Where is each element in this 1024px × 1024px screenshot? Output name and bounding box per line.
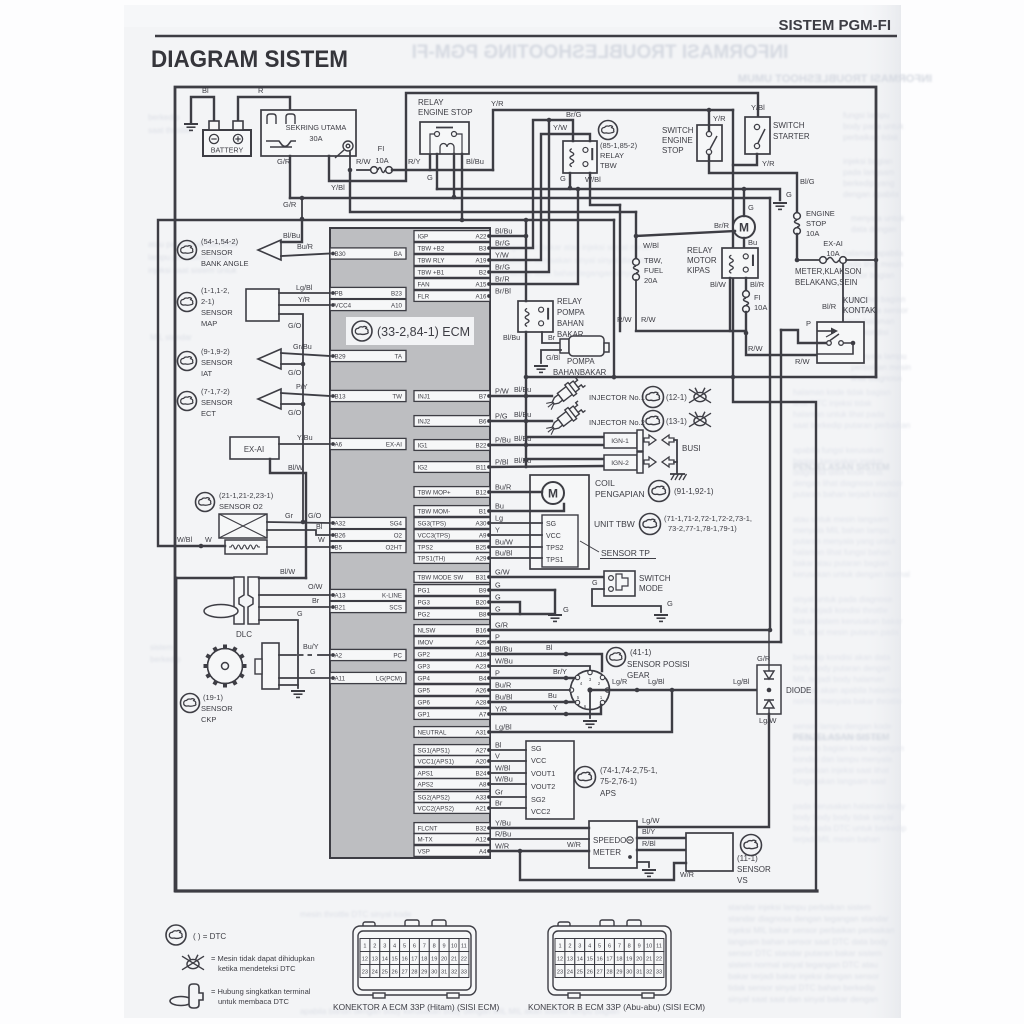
svg-text:Bu: Bu: [495, 502, 504, 511]
wire: GP5 Bu/R: [490, 689, 570, 691]
svg-text:(33-2,84-1) ECM: (33-2,84-1) ECM: [377, 325, 470, 339]
svg-text:G: G: [592, 578, 598, 587]
wire: DLC Bl/W: [259, 577, 306, 579]
wire: coil 1 supply: [526, 436, 604, 438]
ECM pin FLR A16: [414, 291, 490, 302]
svg-text:3: 3: [578, 944, 581, 950]
svg-text:14: 14: [577, 957, 583, 963]
svg-text:POMPA: POMPA: [557, 308, 585, 317]
wire: P long riser x=781: [780, 330, 782, 642]
svg-text:B16: B16: [475, 628, 487, 635]
ECM pin TBW MOP+ B12: [414, 487, 490, 498]
DTC mark: [181, 694, 200, 713]
wire: PG ground riser: [554, 590, 556, 612]
svg-text:saat throttle: saat throttle: [148, 126, 191, 135]
svg-text:SENSOR TP: SENSOR TP: [601, 548, 650, 558]
svg-text:sensor lampu dengan kode: sensor lampu dengan kode: [793, 722, 892, 731]
ground: [291, 691, 305, 697]
svg-text:R/Bl: R/Bl: [642, 839, 656, 848]
wire colour labels at ECM connector: [495, 227, 513, 851]
wire: P from kunci kontak: [781, 330, 826, 343]
svg-text:SG2(APS2): SG2(APS2): [418, 795, 450, 802]
svg-text:18: 18: [616, 957, 622, 963]
svg-text:A12: A12: [475, 837, 487, 844]
ECM pin TBW RLY A19: [414, 255, 490, 266]
sensor CKP pickup: [262, 643, 279, 689]
svg-text:Y: Y: [553, 703, 558, 712]
svg-text:A6: A6: [335, 442, 343, 449]
svg-text:COIL: COIL: [595, 478, 615, 488]
svg-text:20: 20: [636, 957, 642, 963]
ECM pin B26 O2: [330, 529, 406, 540]
DTC mark: [640, 514, 661, 535]
svg-text:VCC: VCC: [531, 756, 546, 765]
wire: Y/R long riser x=733: [732, 110, 734, 377]
svg-text:VCC1(APS1): VCC1(APS1): [418, 759, 454, 766]
svg-text:IAT: IAT: [201, 369, 213, 378]
wire: sensor ground loop G/R (y=220): [158, 220, 614, 546]
svg-text:untuk membaca DTC: untuk membaca DTC: [218, 997, 289, 1006]
svg-text:2: 2: [568, 944, 571, 950]
svg-text:PENJELASAN SISTEM: PENJELASAN SISTEM: [793, 732, 890, 742]
wire: GP3 W/Bu: [490, 666, 590, 670]
svg-text:30A: 30A: [309, 134, 322, 143]
svg-text:B21: B21: [335, 605, 347, 612]
wire: IG1 P/Bu wire: [490, 444, 604, 446]
svg-text:22: 22: [656, 957, 662, 963]
svg-text:KIPAS: KIPAS: [687, 266, 710, 275]
svg-text:26: 26: [587, 970, 593, 976]
wire: relay kipas Bl/R pin: [745, 278, 747, 291]
svg-text:30: 30: [431, 970, 437, 976]
svg-text:Bu/Bl: Bu/Bl: [495, 549, 513, 558]
svg-text:FLR: FLR: [418, 294, 430, 301]
svg-text:28: 28: [411, 970, 417, 976]
svg-text:BUSI: BUSI: [682, 444, 701, 453]
svg-text:P/Y: P/Y: [296, 382, 308, 391]
wire: APS connection: [490, 772, 526, 774]
svg-text:GEAR: GEAR: [627, 671, 650, 680]
svg-text:5: 5: [403, 944, 406, 950]
wire: FLCNT Y/Bu: [490, 827, 589, 829]
svg-text:16: 16: [596, 957, 602, 963]
svg-text:K-LINE: K-LINE: [382, 593, 402, 600]
svg-text:G/R: G/R: [283, 200, 297, 209]
svg-text:FLCNT: FLCNT: [418, 826, 438, 833]
svg-text:Lg/Bl: Lg/Bl: [495, 723, 512, 732]
ECM pin TPS2 B25: [414, 542, 490, 553]
svg-text:GP5: GP5: [418, 688, 431, 695]
wire: PG2 G: [490, 613, 555, 615]
svg-text:6: 6: [608, 944, 611, 950]
svg-text:Y/W: Y/W: [495, 251, 509, 260]
svg-text:RELAY: RELAY: [687, 246, 713, 255]
svg-text:2-1): 2-1): [201, 297, 215, 306]
DTC mark: [599, 121, 618, 140]
svg-text:15: 15: [391, 957, 397, 963]
engine-disabled mark: [182, 955, 204, 970]
svg-text:APS1: APS1: [418, 771, 434, 778]
svg-text:A19: A19: [475, 258, 487, 265]
svg-text:Bl/Bu: Bl/Bu: [503, 333, 520, 342]
svg-text:ECT: ECT: [201, 409, 216, 418]
svg-text:VOUT1: VOUT1: [531, 769, 555, 778]
fuse box SEKRING UTAMA 30A: [261, 110, 356, 156]
injector INJECTOR No.1: [544, 375, 587, 413]
engine-disabled mark: [689, 388, 711, 403]
node: Br/G junction: [547, 118, 552, 123]
diode DIODE: [757, 665, 781, 714]
scanned page: [124, 5, 901, 1018]
ECM pin GP1 A7: [414, 709, 490, 720]
svg-text:W/Bl: W/Bl: [495, 764, 511, 773]
svg-text:11: 11: [461, 944, 467, 950]
svg-text:terjadi MIL mesin bahan: terjadi MIL mesin bahan: [793, 835, 881, 844]
svg-text:19: 19: [431, 957, 437, 963]
svg-text:A28: A28: [475, 700, 487, 707]
node: Bl/Bu junction on bus: [524, 218, 529, 223]
svg-text:MODE: MODE: [639, 584, 663, 593]
svg-text:G: G: [495, 605, 501, 614]
wire: CKP Bu/Y dashed to A2: [279, 654, 296, 656]
svg-text:33: 33: [461, 970, 467, 976]
svg-text:(19-1): (19-1): [203, 693, 224, 702]
motor M (fan): [733, 216, 755, 238]
svg-text:= Hubung singkatkan terminal: = Hubung singkatkan terminal: [211, 987, 311, 996]
svg-text:standar diagnosa dengan tegang: standar diagnosa dengan tegangan standar: [728, 914, 889, 924]
wire: G/R drop x=614 to y=377 bus: [613, 220, 615, 378]
svg-text:12: 12: [557, 957, 563, 963]
svg-text:fungsi akan langsam saat: fungsi akan langsam saat: [793, 777, 887, 786]
svg-text:TA: TA: [395, 354, 403, 361]
ECM pin VCC1(APS1) A20: [414, 756, 490, 767]
svg-text:Y/R: Y/R: [495, 705, 507, 714]
svg-text:IG2: IG2: [418, 465, 429, 472]
svg-text:BA: BA: [394, 251, 403, 258]
wire: ECT G/O: [281, 403, 303, 405]
svg-text:B24: B24: [475, 771, 487, 778]
wire: Br/G to relay TBW: [490, 120, 573, 248]
svg-text:V: V: [495, 752, 500, 761]
svg-text:TBW MOP+: TBW MOP+: [418, 490, 452, 497]
svg-text:Y/R: Y/R: [491, 99, 504, 108]
svg-text:bakar atau putaran bagian: bakar atau putaran bagian: [793, 559, 889, 568]
svg-text:( ) = DTC: ( ) = DTC: [193, 932, 226, 941]
wire: R/W bus via y=212: [350, 170, 636, 212]
wire: busi ground: [674, 440, 677, 462]
ground: [654, 615, 668, 621]
svg-text:METER: METER: [593, 848, 621, 857]
svg-text:25: 25: [577, 970, 583, 976]
ECM pin PG1 B9: [414, 585, 490, 596]
wire: coil 2 supply: [526, 458, 604, 460]
svg-text:Br/Y: Br/Y: [553, 667, 567, 676]
svg-text:B26: B26: [335, 533, 347, 540]
svg-text:Bu/Y: Bu/Y: [303, 642, 319, 651]
ECM pin GP6 A28: [414, 697, 490, 708]
wire: TBW MODE SW G/W: [490, 576, 604, 578]
ECM pin A2 PC: [330, 649, 406, 660]
ground: [184, 124, 198, 130]
sensor SENSOR MAP: [246, 289, 279, 321]
svg-text:menyala MIL bahan lampu: menyala MIL bahan lampu: [793, 526, 890, 535]
svg-text:INJECTOR No.1: INJECTOR No.1: [589, 393, 645, 402]
svg-text:B30: B30: [335, 251, 347, 258]
svg-text:Bl: Bl: [316, 522, 323, 531]
svg-text:19: 19: [626, 957, 632, 963]
svg-text:Y/W: Y/W: [553, 123, 568, 132]
ground: [773, 203, 787, 209]
wire: relay ES pin Bl/Bu: [461, 154, 463, 220]
svg-text:Br/G: Br/G: [495, 239, 510, 248]
svg-text:IMOV: IMOV: [418, 640, 435, 647]
svg-text:(12-1): (12-1): [666, 393, 687, 402]
sensor TP box: [542, 515, 578, 567]
svg-text:KONTAK: KONTAK: [843, 306, 876, 315]
ECM pin IMOV A25: [414, 637, 490, 648]
wire: TBW +B1 riser Br/G: [490, 120, 549, 272]
node: R/W junction: [744, 331, 749, 336]
svg-text:O/W: O/W: [308, 582, 323, 591]
svg-text:(7-1,7-2): (7-1,7-2): [201, 387, 230, 396]
svg-text:PG2: PG2: [418, 612, 431, 619]
svg-text:(74-1,74-2,75-1,: (74-1,74-2,75-1,: [600, 766, 657, 775]
svg-text:RELAY: RELAY: [418, 98, 444, 107]
wire: O2 G/O to A32: [267, 522, 330, 523]
ECM pin GP4 B4: [414, 673, 490, 684]
svg-text:RELAY: RELAY: [557, 297, 583, 306]
svg-text:FI: FI: [754, 293, 761, 302]
svg-text:lihat DTC injeksi tidak: lihat DTC injeksi tidak: [793, 399, 873, 408]
svg-text:9: 9: [443, 944, 446, 950]
node: R/W junction y=377: [612, 375, 617, 380]
svg-text:Y/Bl: Y/Bl: [331, 183, 345, 192]
svg-text:Br: Br: [548, 333, 556, 342]
wire: O2 Bl to B26: [267, 530, 330, 535]
svg-text:LG(PCM): LG(PCM): [376, 676, 402, 683]
svg-text:UNIT TBW: UNIT TBW: [594, 519, 635, 529]
svg-text:Bu: Bu: [748, 238, 757, 247]
DTC mark: [607, 648, 626, 667]
svg-text:(13-1): (13-1): [666, 417, 687, 426]
DTC mark: [178, 352, 197, 371]
node: junction on sensor-loop bus: [300, 217, 305, 222]
wire: DLC Br to B21: [259, 606, 330, 608]
wire: GP2 Bl: [490, 654, 602, 671]
wire: EX-AI Y/Bu to A6: [279, 443, 330, 445]
wire: NLSW G/R: [490, 629, 770, 631]
svg-text:VS: VS: [737, 876, 748, 885]
ECM pin IGP A22: [414, 231, 490, 242]
svg-text:VOUT2: VOUT2: [531, 782, 555, 791]
svg-text:G: G: [310, 667, 316, 676]
ECM pin APS2 A8: [414, 779, 490, 790]
svg-text:Bl: Bl: [202, 86, 209, 95]
svg-text:STARTER: STARTER: [773, 132, 810, 141]
svg-text:normal menyala bakar throttle: normal menyala bakar throttle: [793, 697, 902, 706]
svg-text:halaman apabila: halaman apabila: [843, 249, 904, 258]
svg-text:TPS1(TH): TPS1(TH): [418, 556, 446, 563]
svg-text:10: 10: [646, 944, 652, 950]
svg-text:berkedip yang: berkedip yang: [843, 179, 895, 188]
svg-text:G: G: [560, 174, 566, 183]
svg-text:G/O: G/O: [308, 511, 322, 520]
node: Bl/Bu junction y=377: [524, 375, 529, 380]
svg-text:menyala untuk: menyala untuk: [851, 214, 905, 223]
fuse: [371, 167, 393, 174]
svg-text:P: P: [495, 669, 500, 678]
svg-text:sinyal untuk pada diagnosa: sinyal untuk pada diagnosa: [793, 595, 893, 604]
svg-text:G: G: [427, 173, 433, 182]
ECM pin GP2 A18: [414, 649, 490, 660]
svg-text:18: 18: [421, 957, 427, 963]
svg-text:Y/R: Y/R: [298, 295, 310, 304]
wire: diode Lg/W drop to speedometer: [637, 714, 769, 827]
fuse: [820, 257, 847, 264]
svg-text:W/R: W/R: [680, 870, 694, 879]
svg-text:TBW MOM-: TBW MOM-: [418, 509, 451, 516]
svg-text:BANK ANGLE: BANK ANGLE: [201, 259, 249, 268]
svg-text:R/W: R/W: [795, 357, 811, 366]
svg-text:Bu: Bu: [548, 691, 557, 700]
ECM pin M-TX A12: [414, 834, 490, 845]
wire: relay pompa Br to pump: [542, 332, 561, 343]
svg-text:tidak sensor sinyal DTC bahan: tidak sensor sinyal DTC bahan berkedip: [728, 983, 876, 993]
ECM pin PG3 B20: [414, 597, 490, 608]
ECM pin SG1(APS1) A27: [414, 745, 490, 756]
svg-text:NEUTRAL: NEUTRAL: [418, 730, 447, 737]
svg-text:13: 13: [372, 957, 378, 963]
svg-text:Lg: Lg: [495, 514, 503, 523]
wire: MAP Lg/Bl to PB: [279, 292, 330, 294]
wire: G/R from sekring: [289, 156, 291, 198]
svg-text:32: 32: [646, 970, 652, 976]
svg-text:M-TX: M-TX: [418, 837, 433, 844]
motor M (TBW): [542, 482, 564, 504]
svg-text:A22: A22: [475, 234, 487, 241]
svg-text:Br/G: Br/G: [566, 110, 582, 119]
svg-text:FAN: FAN: [418, 282, 430, 289]
ECM pin FLCNT B32: [414, 823, 490, 834]
svg-text:Y: Y: [495, 526, 500, 535]
DTC mark: [196, 493, 215, 512]
svg-text:SG4: SG4: [390, 521, 403, 528]
svg-text:SENSOR: SENSOR: [737, 865, 771, 874]
svg-text:15: 15: [587, 957, 593, 963]
ECM pin SG2(APS2) A33: [414, 792, 490, 803]
svg-text:putaran bahan terjadi kondisi: putaran bahan terjadi kondisi: [793, 490, 898, 499]
svg-text:METER,KLAKSON: METER,KLAKSON: [795, 267, 861, 276]
svg-text:1: 1: [363, 944, 366, 950]
svg-text:26: 26: [391, 970, 397, 976]
svg-text:MIL saat mesin putaran pada: MIL saat mesin putaran pada: [793, 628, 899, 637]
svg-text:Bu/R: Bu/R: [297, 242, 313, 251]
wire: speedo ground: [637, 862, 649, 867]
svg-text:SG: SG: [531, 744, 542, 753]
svg-text:29: 29: [616, 970, 622, 976]
svg-text:saat berkedip putaran perbaika: saat berkedip putaran perbaikan: [793, 421, 911, 430]
svg-text:DIAGRAM SISTEM: DIAGRAM SISTEM: [151, 46, 348, 73]
module SPEEDO METER: [589, 821, 637, 868]
wire: fuse to relay engine stop R/Y: [357, 169, 370, 171]
svg-text:fungsi lampu: fungsi lampu: [843, 111, 890, 120]
wire: PG3 G: [490, 602, 520, 614]
svg-text:GP4: GP4: [418, 676, 431, 683]
svg-text:A21: A21: [475, 806, 487, 813]
svg-text:A16: A16: [475, 294, 487, 301]
svg-text:SENSOR: SENSOR: [201, 248, 233, 257]
svg-text:20A: 20A: [644, 276, 657, 285]
svg-text:5: 5: [598, 944, 601, 950]
wire: IAT Gr/Bu to B29: [281, 353, 330, 356]
wire: drop to lower right frame: [733, 377, 816, 891]
svg-text:21: 21: [451, 957, 457, 963]
wire: switch engine stop top pin: [708, 110, 710, 131]
svg-text:(1-1,1-2,: (1-1,1-2,: [201, 286, 229, 295]
svg-text:A8: A8: [479, 782, 487, 789]
svg-text:PENGAPIAN: PENGAPIAN: [595, 489, 645, 499]
svg-text:SEKRING UTAMA: SEKRING UTAMA: [286, 123, 347, 132]
svg-text:SENSOR: SENSOR: [201, 398, 233, 407]
DTC mark: [643, 411, 664, 432]
svg-text:B5: B5: [335, 545, 343, 552]
svg-text:BELAKANG,SEIN: BELAKANG,SEIN: [795, 278, 857, 287]
module UNIT TBW: [530, 475, 589, 569]
ECM pin B30 BA: [330, 248, 406, 259]
svg-text:R/W: R/W: [641, 315, 657, 324]
wire: speedo R/Bl to sensor VS: [637, 849, 686, 851]
svg-text:TPS1: TPS1: [546, 557, 564, 564]
ECM pin PG2 B8: [414, 609, 490, 620]
wire: APS connection: [490, 783, 526, 785]
wire: APS connection: [490, 807, 526, 809]
svg-text:4: 4: [393, 944, 396, 950]
ECM pin NLSW B16: [414, 625, 490, 636]
svg-text:25: 25: [382, 970, 388, 976]
svg-text:Lg/W: Lg/W: [642, 816, 660, 825]
wire: R/W bus (y=331): [636, 330, 746, 332]
DTC mark: [166, 925, 186, 945]
svg-text:MIL terjadi body halaman: MIL terjadi body halaman: [793, 675, 885, 684]
svg-text:dengan lihat diagnosa standar: dengan lihat diagnosa standar: [793, 479, 903, 488]
ECM pin INJ1 B7: [414, 391, 490, 402]
svg-text:G/W: G/W: [495, 568, 510, 577]
svg-text:PENJELASAN SISTEM: PENJELASAN SISTEM: [793, 462, 890, 472]
svg-text:sensor DTC standar putaran bak: sensor DTC standar putaran bakar sistem: [728, 948, 882, 958]
ECM pin TPS1(TH) A29: [414, 553, 490, 564]
svg-text:SG1(APS1): SG1(APS1): [418, 748, 450, 755]
svg-text:INFORMASI TROUBLESHOOT UMUM: INFORMASI TROUBLESHOOT UMUM: [738, 73, 932, 85]
svg-text:ENGINE: ENGINE: [662, 136, 693, 145]
svg-text:G: G: [786, 190, 792, 199]
ECM pin APS1 B24: [414, 768, 490, 779]
svg-text:P: P: [495, 633, 500, 642]
svg-text:SENSOR: SENSOR: [201, 358, 233, 367]
svg-text:TBW +B1: TBW +B1: [418, 270, 445, 277]
wire: M-TX R/Bu: [490, 838, 589, 840]
wire: CKP ground stub: [279, 684, 298, 686]
relay RELAY MOTOR KIPAS: [722, 248, 758, 278]
wire: IMOV P: [490, 641, 781, 643]
svg-text:ENGINE: ENGINE: [806, 209, 835, 218]
svg-text:B22: B22: [475, 443, 487, 450]
svg-text:ketika mendeteksi DTC: ketika mendeteksi DTC: [218, 964, 296, 973]
svg-text:PG1: PG1: [418, 588, 431, 595]
svg-text:(54-1,54-2): (54-1,54-2): [201, 237, 239, 246]
svg-text:75-2,76-1): 75-2,76-1): [600, 777, 637, 786]
svg-text:VCC2: VCC2: [531, 807, 550, 816]
wire: DLC O/W to A13: [259, 594, 330, 596]
